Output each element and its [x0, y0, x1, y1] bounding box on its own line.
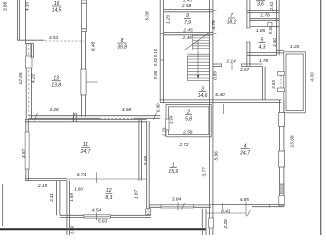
svg-text:0.52: 0.52	[153, 57, 158, 66]
svg-text:8,3: 8,3	[105, 195, 112, 201]
wall central-right long (double)	[208, 0, 210, 103]
wall room9 bottom (double)	[164, 32, 213, 34]
svg-text:3.53: 3.53	[49, 35, 59, 41]
svg-text:2.50: 2.50	[272, 38, 277, 48]
svg-text:2.61: 2.61	[269, 1, 274, 11]
wall tick joint y33	[160, 33, 163, 35]
dimension slash tick x155	[154, 113, 157, 120]
svg-text:6.74: 6.74	[77, 172, 87, 178]
svg-text:1.85: 1.85	[256, 28, 266, 34]
wall bottom exterior (double)	[60, 214, 151, 216]
wall lower shaft left (double)	[201, 209, 203, 235]
dimension ticks 4.78	[213, 10, 217, 12]
svg-text:14,5: 14,5	[52, 8, 62, 14]
svg-text:39,8: 39,8	[117, 45, 127, 51]
dimension tick 6.74	[95, 173, 97, 184]
svg-text:1.20: 1.20	[290, 44, 300, 50]
window box lower shaft	[209, 218, 214, 228]
wall room4 corner post	[279, 184, 284, 194]
page right border	[320, 0, 322, 235]
svg-text:3,6: 3,6	[257, 2, 264, 8]
wall room4 right (double)	[278, 100, 280, 204]
wall room13 left inner	[30, 44, 32, 120]
svg-text:4,3: 4,3	[259, 44, 266, 50]
svg-text:2.45: 2.45	[182, 35, 193, 41]
svg-text:1.29: 1.29	[162, 127, 167, 136]
svg-text:13,8: 13,8	[51, 82, 61, 88]
dimension slash tick x36	[35, 113, 38, 121]
svg-text:3.84: 3.84	[172, 197, 182, 203]
svg-text:1.78: 1.78	[260, 12, 270, 18]
stairs direction arrow	[197, 40, 199, 78]
svg-text:4.54: 4.54	[92, 208, 102, 214]
svg-text:4.85: 4.85	[240, 197, 250, 203]
svg-text:2.45: 2.45	[182, 0, 192, 2]
wall room11 left (double)	[25, 119, 27, 180]
wall room11 bottom (double)	[25, 177, 67, 179]
svg-text:1.60: 1.60	[74, 187, 83, 192]
wall corridor bottom (double)	[160, 99, 281, 101]
room2 outer rect	[166, 104, 211, 136]
wall vestibule (double)	[249, 18, 279, 20]
dimension tick bottom window	[95, 213, 97, 221]
wall room8 bottom lower-right	[134, 117, 161, 119]
svg-text:2.58: 2.58	[182, 130, 193, 136]
stairs lower flight treads	[187, 58, 209, 60]
wall room5 top notch bump	[268, 22, 272, 26]
wall room1 left (double)	[146, 121, 148, 209]
wall tick room4 bottom	[269, 204, 271, 207]
svg-text:5.08: 5.08	[145, 11, 151, 21]
svg-text:18,2: 18,2	[227, 20, 237, 26]
balcony door jamb lower	[278, 88, 285, 92]
wire dashed balcony door	[280, 75, 282, 88]
svg-text:0.88: 0.88	[153, 70, 158, 79]
wall room8 bottom upper	[29, 115, 161, 117]
wall room5 top	[251, 26, 268, 28]
wall room1 bottom (double)	[149, 204, 211, 206]
wall left inner	[25, 0, 27, 44]
stairs upper flight treads	[192, 34, 194, 50]
wall shaft left (double)	[56, 181, 58, 216]
wall room9 top (double)	[164, 9, 213, 11]
wall room6 bottom (double)	[247, 9, 279, 11]
svg-text:3.77: 3.77	[201, 167, 207, 177]
svg-text:3.57: 3.57	[21, 149, 27, 159]
dimension tick room1 window	[177, 202, 179, 211]
window box room13 right	[81, 69, 86, 95]
svg-text:1.87: 1.87	[133, 190, 139, 200]
svg-text:2.28: 2.28	[223, 219, 229, 230]
balcony inner rect	[286, 54, 303, 111]
window box room11 left	[25, 132, 29, 169]
dimension tick 4.85	[245, 202, 247, 217]
wall room16 bottom	[17, 39, 44, 41]
dimension tick 6.40	[222, 104, 224, 114]
wire dashed room8 bottom opening	[100, 117, 134, 119]
svg-text:4.78: 4.78	[211, 20, 217, 30]
svg-text:5,8: 5,8	[185, 116, 192, 122]
balcony outer rect	[284, 52, 306, 113]
wall rooms6-5 right (double)	[275, 0, 277, 55]
dimension line 6.74	[67, 178, 147, 180]
wall tick joint y60	[160, 59, 163, 61]
wire dashed room13 left wall axis	[28, 44, 30, 120]
wire dashed opening room16	[45, 40, 84, 42]
door opening room7 right wall	[246, 28, 250, 42]
wall hall right (double)	[261, 67, 263, 100]
svg-text:1.60: 1.60	[69, 225, 74, 234]
wall shaft right (double)	[66, 181, 68, 235]
wall room7 right (double)	[246, 0, 248, 67]
svg-text:6.40: 6.40	[215, 92, 225, 98]
svg-text:13.68: 13.68	[289, 135, 295, 147]
svg-text:8.41: 8.41	[221, 209, 231, 215]
svg-text:2.72: 2.72	[178, 142, 189, 148]
svg-text:0.90: 0.90	[155, 103, 160, 112]
svg-text:7,9: 7,9	[184, 20, 191, 26]
svg-text:2.65: 2.65	[271, 80, 276, 90]
svg-text:15,9: 15,9	[168, 169, 178, 175]
wall post hatched	[146, 209, 151, 215]
wall room16 right window box	[82, 0, 87, 32]
door opening room7 bottom	[222, 63, 242, 67]
wall room11 top (double)	[25, 118, 147, 120]
stairs landing lines	[187, 53, 209, 55]
svg-text:1.99: 1.99	[168, 115, 173, 124]
wall tick room16 window	[82, 28, 87, 30]
dimension line 8.41	[206, 212, 246, 214]
svg-text:4.00: 4.00	[310, 72, 316, 82]
svg-text:5.83: 5.83	[98, 219, 108, 225]
wall room13 left outer	[25, 44, 27, 120]
svg-text:4.22: 4.22	[30, 74, 36, 84]
window box room4 right upper	[279, 113, 285, 127]
svg-text:0.92: 0.92	[268, 25, 273, 34]
svg-text:4.58: 4.58	[122, 107, 132, 113]
svg-text:0.89: 0.89	[212, 71, 217, 80]
room2 door gap	[165, 119, 169, 130]
svg-text:1.78: 1.78	[259, 58, 269, 64]
svg-text:14,6: 14,6	[198, 93, 208, 99]
wall lower shaft right (double)	[208, 103, 210, 235]
svg-text:24,7: 24,7	[239, 150, 250, 156]
room2 inner rect	[168, 107, 209, 135]
svg-text:3.28: 3.28	[49, 107, 59, 113]
wall room11 right (double)	[138, 119, 140, 180]
wall left exterior top (double)	[17, 0, 19, 40]
wall room7 bottom (double)	[213, 63, 263, 65]
svg-text:2.31: 2.31	[49, 193, 54, 203]
room label 3,6	[256, 0, 265, 2]
svg-text:5.96: 5.96	[213, 151, 219, 161]
window box room13 left	[26, 56, 32, 68]
wall step room8-room11 (double)	[73, 113, 75, 122]
svg-text:12.65: 12.65	[18, 72, 24, 84]
svg-text:1.69: 1.69	[69, 193, 74, 202]
wall room8 bottom lower-left	[29, 117, 101, 119]
balcony door jamb upper	[278, 72, 285, 76]
wall room4 bottom	[211, 203, 284, 205]
svg-text:2.14: 2.14	[225, 59, 236, 65]
svg-text:1.20: 1.20	[166, 15, 172, 25]
window box room4 right lower	[279, 151, 285, 167]
wall corner step top-left	[30, 44, 32, 58]
window box room4 right corner	[279, 196, 285, 206]
wall room13 right (double)	[81, 32, 83, 117]
svg-text:3.88: 3.88	[3, 2, 9, 12]
svg-text:3.67: 3.67	[240, 67, 250, 73]
wall central-left long (double)	[159, 0, 161, 103]
svg-text:24,7: 24,7	[80, 149, 91, 155]
svg-text:2.58: 2.58	[181, 3, 192, 9]
stairs upper diagonal	[185, 32, 210, 50]
wall balcony connect top (double)	[276, 49, 284, 51]
svg-text:5.66: 5.66	[143, 156, 149, 166]
svg-text:0.10: 0.10	[153, 48, 158, 57]
svg-text:4.10: 4.10	[25, 2, 31, 12]
svg-text:8.48: 8.48	[91, 42, 97, 52]
stairs lower flight box	[187, 56, 209, 80]
page left border	[2, 184, 4, 226]
dimension slash tick x73.5	[72, 113, 75, 121]
svg-text:2.45: 2.45	[182, 28, 193, 34]
wall tick room13 window mid	[86, 81, 97, 83]
svg-text:2.19: 2.19	[37, 183, 48, 189]
window box room1 bottom	[161, 204, 194, 208]
window box bottom wall	[84, 215, 111, 218]
page bottom border	[0, 228, 206, 230]
wall room5 bottom (double)	[247, 52, 277, 54]
